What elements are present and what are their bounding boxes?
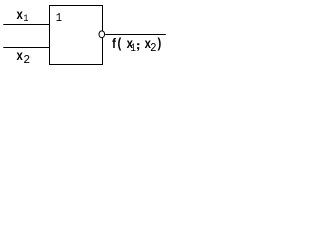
label f(x1;x2) [112, 35, 161, 55]
inversion bubble [99, 31, 105, 38]
wire input x2 [3, 47, 50, 49]
svg-text:x: x [17, 7, 23, 22]
svg-text:1: 1 [131, 42, 136, 54]
svg-text:): ) [158, 35, 162, 50]
svg-text:2: 2 [23, 54, 30, 67]
svg-text:1: 1 [23, 12, 28, 24]
svg-text:2: 2 [150, 43, 156, 55]
gate U1 body [50, 6, 103, 65]
svg-text:(: ( [118, 35, 123, 50]
svg-text:1: 1 [56, 11, 62, 25]
svg-text:x: x [17, 48, 23, 63]
svg-text:f: f [112, 36, 117, 51]
label x2 [17, 48, 31, 67]
label x1 [17, 7, 29, 24]
wire input x1 [3, 24, 50, 26]
wire output [105, 34, 166, 36]
